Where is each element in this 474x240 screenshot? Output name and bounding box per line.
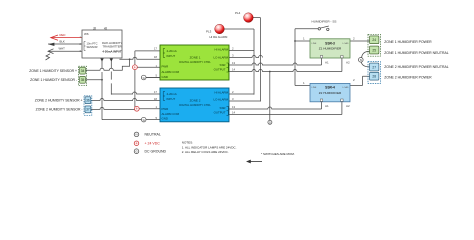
svg-text:+ 24 VDC: + 24 VDC — [145, 142, 161, 146]
svg-text:17: 17 — [154, 47, 158, 51]
svg-text:ZONE 1 HUMIDIFIER POWER NEUTRA: ZONE 1 HUMIDIFIER POWER NEUTRAL — [384, 51, 448, 55]
svg-text:LOAD: LOAD — [343, 42, 349, 45]
svg-text:27: 27 — [372, 65, 376, 69]
svg-text:LOAD: LOAD — [343, 86, 349, 89]
svg-text:17: 17 — [154, 90, 158, 94]
svg-text:DC GROUND: DC GROUND — [145, 150, 167, 154]
svg-text:G: G — [143, 76, 145, 80]
svg-text:OUTPUT: OUTPUT — [214, 68, 226, 72]
svg-text:INPUT: INPUT — [167, 97, 176, 101]
svg-text:RH% HUMIDITY: RH% HUMIDITY — [102, 41, 122, 45]
svg-text:+: + — [136, 142, 138, 146]
svg-text:ZONE 1 HUMIDITY SENSOR -: ZONE 1 HUMIDITY SENSOR - — [30, 78, 77, 82]
svg-text:NOTES:: NOTES: — [182, 141, 193, 145]
svg-text:4-20mA INPUT: 4-20mA INPUT — [102, 50, 121, 54]
svg-text:18: 18 — [154, 55, 158, 59]
svg-text:ZONE 2 HUMIDIFIER POWER NEUTRA: ZONE 2 HUMIDIFIER POWER NEUTRAL — [384, 65, 448, 69]
svg-text:13: 13 — [232, 61, 236, 65]
svg-text:A1: A1 — [325, 104, 329, 108]
svg-text:ZONE 2: ZONE 2 — [190, 98, 201, 102]
svg-text:OUTPUT: OUTPUT — [214, 111, 226, 115]
svg-text:HI ALARM: HI ALARM — [215, 90, 229, 94]
svg-text:* SWITCHES ARE MOM.: * SWITCHES ARE MOM. — [261, 152, 295, 156]
svg-text:ALARM COM: ALARM COM — [162, 70, 180, 74]
svg-text:25: 25 — [372, 48, 376, 52]
svg-text:SSR-3: SSR-3 — [325, 41, 335, 45]
svg-text:PL3: PL3 — [206, 30, 212, 34]
svg-text:BLK: BLK — [60, 40, 65, 44]
svg-text:HI ALARM: HI ALARM — [215, 47, 229, 51]
svg-text:PWR: PWR — [162, 65, 169, 69]
svg-text:HI RH ALARM: HI RH ALARM — [210, 35, 229, 39]
svg-text:INPUT: INPUT — [167, 54, 176, 58]
svg-text:37: 37 — [86, 108, 90, 112]
svg-text:A1: A1 — [325, 61, 329, 65]
svg-text:WHT: WHT — [59, 47, 66, 51]
svg-text:1. ALL INDICATOR LAMPS ARE 24V: 1. ALL INDICATOR LAMPS ARE 24VDC. — [182, 145, 237, 149]
svg-text:ZONE 2 HUMIDIFIER POWER: ZONE 2 HUMIDIFIER POWER — [384, 75, 432, 79]
svg-text:A2: A2 — [346, 104, 350, 108]
svg-text:G: G — [269, 121, 271, 125]
svg-text:DIGITAL HUMIDITY CTRL: DIGITAL HUMIDITY CTRL — [179, 103, 211, 107]
svg-text:4-20mA: 4-20mA — [167, 49, 177, 53]
svg-text:SSR: SSR — [220, 63, 226, 67]
svg-text:35: 35 — [81, 78, 85, 82]
svg-text:4-20mA: 4-20mA — [167, 92, 177, 96]
svg-text:G: G — [143, 118, 145, 122]
svg-text:RED: RED — [60, 33, 66, 37]
svg-text:PL4: PL4 — [235, 11, 241, 15]
svg-text:LINE: LINE — [312, 43, 317, 45]
svg-text:LO ALARM: LO ALARM — [214, 56, 229, 60]
svg-text:TRANSMITTER: TRANSMITTER — [102, 45, 121, 49]
svg-text:PWR: PWR — [162, 107, 169, 111]
svg-text:NEUTRAL: NEUTRAL — [145, 133, 161, 137]
svg-text:36: 36 — [86, 99, 90, 103]
svg-text:ZONE 2 HUMIDITY SENSOR -: ZONE 2 HUMIDITY SENSOR - — [36, 108, 83, 112]
svg-text:14: 14 — [232, 111, 236, 115]
svg-text:24: 24 — [372, 38, 376, 42]
svg-text:+: + — [136, 107, 138, 111]
svg-text:14: 14 — [232, 68, 236, 72]
svg-text:LINE: LINE — [312, 87, 317, 89]
svg-text:SENSOR: SENSOR — [87, 45, 98, 49]
svg-text:LO ALARM: LO ALARM — [214, 97, 229, 101]
svg-text:SSR: SSR — [220, 106, 226, 110]
svg-text:13: 13 — [232, 105, 236, 109]
svg-text:+: + — [134, 66, 136, 70]
svg-text:A2: A2 — [346, 61, 350, 65]
svg-text:HUMIDIFIER - SS: HUMIDIFIER - SS — [312, 20, 337, 24]
svg-text:Z2 HUMIDIFIER: Z2 HUMIDIFIER — [319, 91, 342, 95]
svg-text:2. ALL RELAY COILS ARE 24VDC.: 2. ALL RELAY COILS ARE 24VDC. — [182, 150, 229, 154]
svg-text:GND: GND — [162, 75, 168, 79]
svg-text:34: 34 — [81, 69, 85, 73]
svg-text:N: N — [360, 58, 362, 62]
svg-text:28: 28 — [372, 75, 376, 79]
svg-text:GND: GND — [162, 116, 168, 120]
svg-text:N: N — [135, 133, 137, 137]
svg-text:ZONE 1: ZONE 1 — [190, 56, 201, 60]
svg-text:DIGITAL HUMIDITY CTRL: DIGITAL HUMIDITY CTRL — [179, 60, 211, 64]
svg-text:18: 18 — [154, 97, 158, 101]
svg-text:Z1 HUMIDIFIER: Z1 HUMIDIFIER — [319, 47, 342, 51]
svg-text:W6: W6 — [84, 32, 89, 36]
svg-text:ZONE 2 HUMIDITY SENSOR +: ZONE 2 HUMIDITY SENSOR + — [35, 98, 83, 102]
svg-text:ZONE 1 HUMIDIFIER POWER: ZONE 1 HUMIDIFIER POWER — [384, 40, 432, 44]
svg-text:ALARM COM: ALARM COM — [162, 112, 180, 116]
svg-text:ZONE 1 HUMIDITY SENSOR +: ZONE 1 HUMIDITY SENSOR + — [29, 69, 77, 73]
svg-text:SSR-4: SSR-4 — [325, 86, 335, 90]
